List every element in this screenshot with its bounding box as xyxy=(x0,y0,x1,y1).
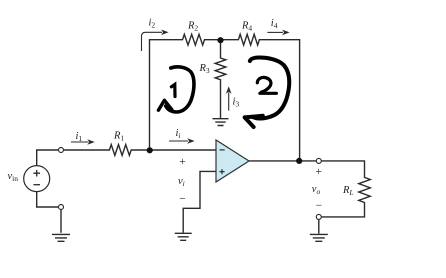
svg-text:+: + xyxy=(315,166,323,178)
svg-text:−: − xyxy=(179,193,187,205)
svg-text:+: + xyxy=(179,156,187,168)
svg-text:−: − xyxy=(315,200,323,212)
